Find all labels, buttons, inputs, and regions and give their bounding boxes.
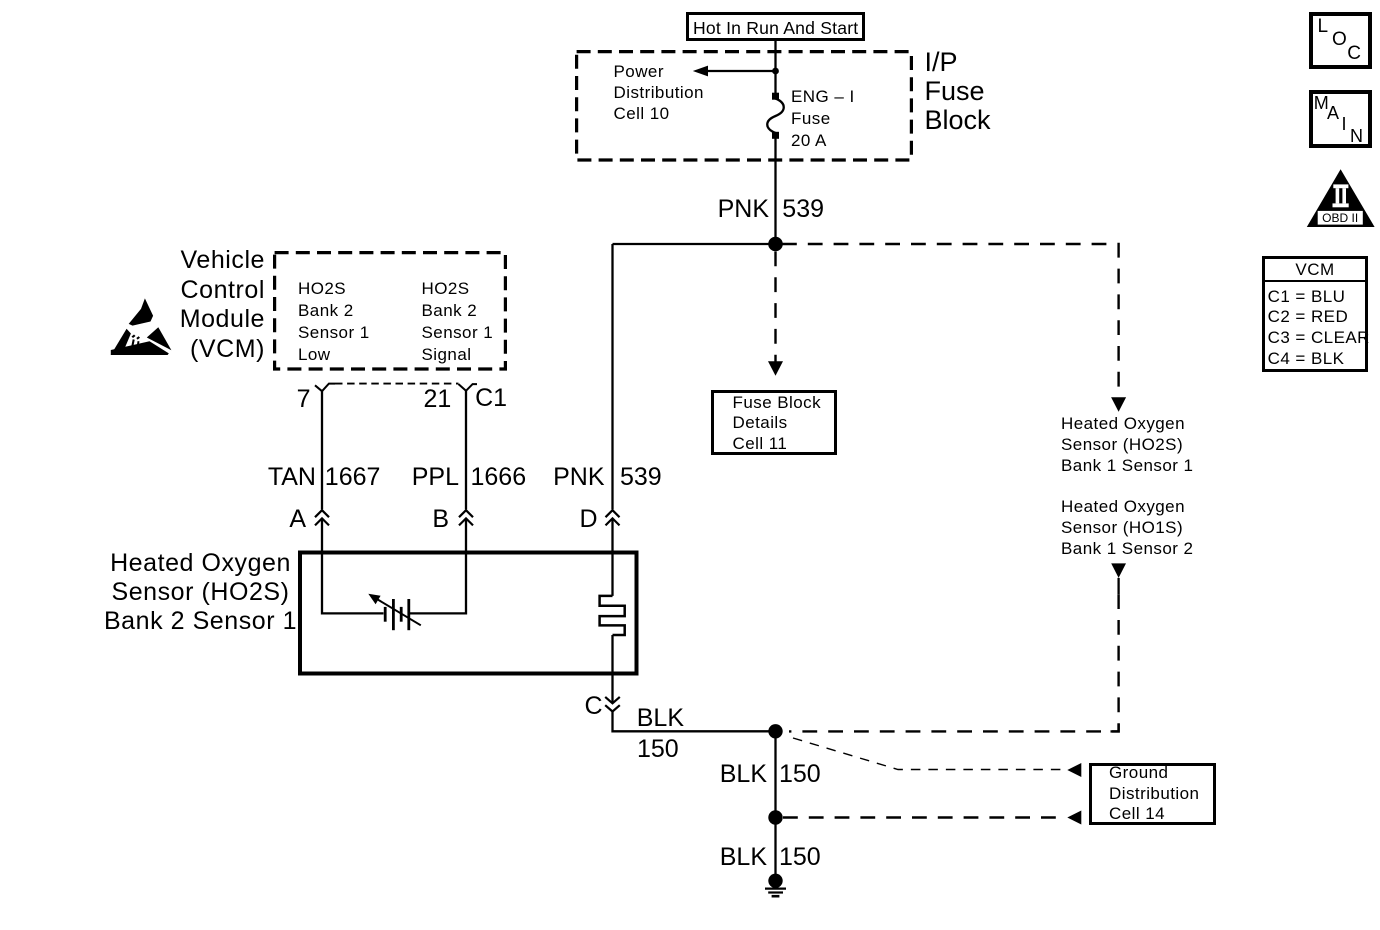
junction dot PNK 539: [768, 237, 783, 252]
label terminal C: [584, 694, 602, 718]
sense cell variable arrow: [376, 598, 421, 625]
label Heated Oxygen Sensor (HO2S) Bank 2 Sensor 1: [95, 549, 307, 636]
wire fuse to junction PNK 539: [774, 135, 776, 244]
label HO2S Bank 2 Sensor 1 Signal: [422, 278, 494, 365]
VCM dashed box: [275, 253, 506, 369]
triangle connector HO1S bank1 sensor2: [1111, 563, 1126, 578]
fuse end terminal top: [772, 93, 779, 100]
sense cell (variable voltage) plates: [385, 599, 409, 630]
label Power Distribution Cell 10: [614, 61, 704, 124]
label wire PNK 539 lower: [553, 465, 604, 489]
label pin 21: [424, 387, 452, 411]
label connector C1: [475, 386, 507, 410]
label Heated Oxygen Sensor (HO1S) Bank 1 Sensor 2: [1061, 496, 1193, 559]
label pin 7: [297, 387, 311, 411]
ground symbol G107: [765, 874, 786, 897]
thin dashed wire splice to ground distribution (diagonal): [793, 738, 1063, 770]
wire heater to box bottom: [611, 635, 613, 702]
dashed wire splice 2 to ground distribution: [783, 816, 1063, 818]
label wire TAN 1667: [268, 465, 316, 489]
label fuse ENG-I 20 A: [791, 86, 855, 152]
label wire BLK 150 mid: [720, 762, 767, 786]
dashed wire to fuse block details: [774, 252, 776, 363]
vcm connector table: [1262, 256, 1368, 372]
label OBD II: [1318, 212, 1363, 225]
dashed wire HO1S sensor2 to splice: [789, 594, 1119, 731]
connector B chevrons: [459, 510, 473, 525]
label terminal D: [579, 507, 597, 531]
wire C to ground junction: [613, 712, 776, 732]
fuse end terminal bottom: [772, 132, 779, 139]
label Heated Oxygen Sensor (HO2S) Bank 1 Sensor 1: [1061, 413, 1193, 476]
connector D chevrons: [606, 510, 620, 525]
label HO2S Bank 2 Sensor 1 Low: [298, 278, 370, 365]
label Vehicle Control Module (VCM): [180, 246, 265, 364]
label wire BLK 150 at C: [637, 706, 684, 730]
wire elbow at splice corner: [1111, 724, 1119, 732]
fuse ENG-I squiggle: [767, 99, 784, 134]
loc box: [1309, 12, 1372, 69]
arrowhead to Power Distribution: [693, 66, 708, 77]
connector C chevrons (down): [605, 697, 620, 712]
wire stub under triangle: [1117, 578, 1119, 594]
arrowhead fuse block details: [768, 361, 783, 375]
wire PNK 539 down to D: [611, 244, 613, 509]
junction dot ground splice 1: [768, 724, 782, 738]
box Fuse Block Details Cell 11: [711, 390, 837, 455]
OBD II triangle: [1307, 169, 1375, 227]
wire BLK 150 mid: [774, 731, 776, 817]
wire D into sensor box: [611, 518, 613, 596]
wire from Hot box to fuse: [774, 40, 776, 96]
wire arrow to Power Distribution: [706, 70, 776, 72]
arrowhead HO2S bank1 sensor1: [1111, 397, 1126, 411]
dashed link between pins 7 and 21: [335, 383, 459, 385]
pin 7 fork: [315, 384, 335, 392]
arrowhead ground distribution 1: [1067, 763, 1081, 777]
sensor HO2S box: [300, 553, 637, 674]
box Ground Distribution Cell 14: [1089, 763, 1216, 825]
wire pin 21 PPL 1666: [465, 391, 467, 510]
label wire PNK 539 upper: [718, 197, 769, 221]
ESD symbol: [111, 298, 172, 355]
label wire PPL 1666: [412, 465, 459, 489]
dashed wire junction to HO2S bank1 sensor1: [782, 244, 1119, 397]
pin 21 fork: [459, 384, 478, 391]
label wire BLK 150 lower: [720, 845, 767, 869]
wire pin 7 TAN 1667: [321, 391, 323, 509]
arrowhead ground distribution 2: [1067, 811, 1081, 825]
wire BLK 150 lower: [774, 818, 776, 876]
main box: [1309, 90, 1372, 148]
connector A chevrons: [315, 510, 329, 525]
label I/P Fuse Block: [925, 48, 991, 135]
junction dot ground splice 2: [768, 810, 782, 824]
I/P fuse block dashed box: [577, 52, 912, 160]
wire A into sensor box to sense cell: [322, 518, 384, 613]
junction dot at arrow: [772, 68, 779, 75]
wire PNK horizontal run: [613, 243, 776, 245]
heater element meander: [600, 596, 625, 635]
label terminal B: [432, 507, 449, 531]
label terminal A: [289, 507, 306, 531]
power label box Hot In Run And Start: [686, 12, 865, 41]
wire sense cell to pin B: [410, 518, 466, 613]
